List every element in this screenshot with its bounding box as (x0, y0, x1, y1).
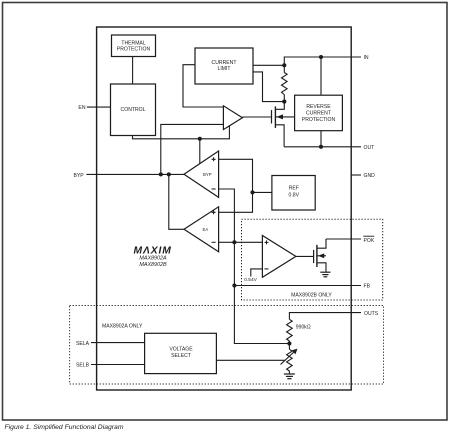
svg-text:IN: IN (364, 55, 369, 61)
wire reverse block to OUT net (319, 131, 323, 149)
node BYP junction 1 (159, 172, 163, 176)
node FB (232, 283, 236, 287)
op-amp BYP (184, 151, 219, 197)
node IN branch (319, 55, 323, 95)
node gate pull node (282, 100, 286, 104)
svg-text:0.54V: 0.54V (244, 277, 257, 283)
wire current limit to IN resistor top (253, 64, 284, 66)
svg-text:SELB: SELB (76, 363, 90, 369)
svg-text:MAX8902B: MAX8902B (139, 262, 167, 268)
svg-text:EN: EN (78, 105, 85, 111)
wire BYP node to driver amp lower input (161, 124, 224, 174)
svg-text:REF: REF (289, 185, 299, 191)
pin OUT (364, 145, 375, 151)
svg-text:OUTS: OUTS (364, 311, 379, 317)
svg-text:SELECT: SELECT (171, 353, 191, 359)
svg-text:GND: GND (364, 173, 376, 179)
wire voltage select to wiper (216, 359, 285, 361)
svg-text:0.8V: 0.8V (289, 192, 300, 198)
pin BYP (73, 173, 184, 179)
part number MAX8902A (139, 256, 167, 262)
svg-text:BYP: BYP (73, 173, 84, 179)
wire BYP- / EA- / FB net (219, 189, 290, 344)
svg-text:MAX8902B ONLY: MAX8902B ONLY (291, 293, 332, 299)
wire current limit to gate node (253, 72, 284, 102)
svg-text:BYP: BYP (203, 172, 212, 177)
transistor Q2 POK NMOS (314, 239, 326, 272)
wire REF to BYP+ and EA+ (219, 159, 272, 212)
svg-text:990kΩ: 990kΩ (296, 325, 311, 331)
IC boundary box (97, 27, 352, 390)
svg-text:MAX8902A: MAX8902A (139, 256, 167, 262)
figure caption (5, 424, 124, 431)
ground for Q2 (320, 272, 330, 277)
comparator U2 (262, 236, 296, 278)
OUT net wire (284, 146, 361, 148)
svg-text:CURRENT: CURRENT (306, 110, 331, 116)
svg-text:PROTECTION: PROTECTION (117, 47, 151, 53)
voltage select block (145, 333, 217, 373)
pin SELB (76, 363, 145, 369)
svg-text:CONTROL: CONTROL (121, 107, 146, 113)
svg-text:VOLTAGE: VOLTAGE (169, 347, 193, 353)
current limit block (195, 48, 253, 84)
op-amp EA (184, 207, 219, 252)
svg-text:EA: EA (203, 227, 209, 232)
pin EN (78, 105, 110, 111)
pin OUTS wire (289, 311, 378, 320)
op-amp U1 gate driver (223, 106, 271, 130)
svg-text:FB: FB (364, 284, 371, 290)
svg-text:THERMAL: THERMAL (121, 40, 146, 46)
resistor R2 990k (287, 319, 311, 343)
pin GND (351, 173, 375, 179)
thermal protection block (112, 35, 156, 57)
reference block REF 0.8V (272, 176, 315, 211)
svg-text:REVERSE: REVERSE (306, 104, 331, 110)
svg-text:CURRENT: CURRENT (212, 60, 237, 66)
pin FB wire (234, 284, 370, 290)
svg-text:POK: POK (364, 238, 375, 244)
wire to comparator input (234, 241, 262, 243)
resistor R1 (IN to gate node) (282, 65, 288, 101)
pin POK wire (326, 236, 375, 244)
control block (111, 84, 156, 136)
MAXIM logo (134, 246, 172, 257)
wire BYP node to EA input (169, 174, 184, 229)
dashed box MAX8902A ONLY (70, 306, 384, 385)
dashed box MAX8902B ONLY (242, 219, 383, 300)
svg-text:MAX8902A ONLY: MAX8902A ONLY (102, 324, 143, 330)
wire control to driver amp (133, 125, 230, 163)
wire 0.54V reference (244, 269, 262, 283)
svg-text:Figure 1. Simplified Functiona: Figure 1. Simplified Functional Diagram (5, 424, 124, 431)
wire thermal to control (132, 57, 134, 85)
transistor Q1 pass PMOS (272, 102, 295, 147)
reverse current protection block (295, 95, 343, 131)
pin SELA (76, 341, 145, 347)
svg-text:SELA: SELA (76, 341, 90, 347)
svg-text:LIMIT: LIMIT (217, 66, 230, 72)
pin IN (364, 55, 369, 61)
wire EA- stub (219, 240, 237, 244)
wire comparator output (296, 255, 314, 257)
resistor R3 adjustable (281, 344, 298, 374)
svg-text:PROTECTION: PROTECTION (302, 117, 336, 123)
ground for divider (284, 374, 295, 379)
wire current limit to driver amp top input (183, 65, 223, 107)
svg-text:OUT: OUT (364, 145, 375, 151)
node divider junction (287, 341, 291, 345)
node BYP junction 2 (167, 172, 171, 176)
IN net wire (284, 57, 361, 65)
node resistor top (282, 63, 286, 67)
part number MAX8902B (139, 262, 167, 268)
